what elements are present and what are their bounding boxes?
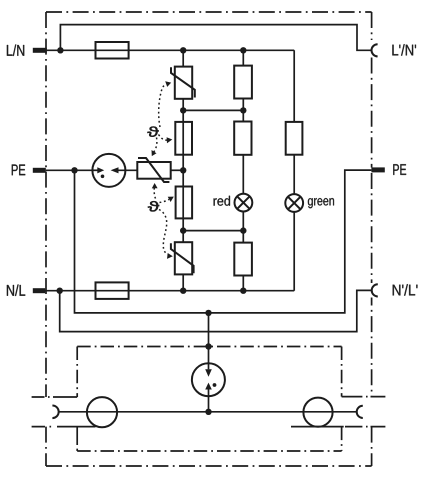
thermal disconnect theta 2 — [148, 201, 159, 211]
pass-through socket arc left — [52, 406, 58, 419]
label green — [308, 198, 334, 208]
label L/N — [7, 45, 24, 56]
dotted arrow theta1 to V1 — [159, 84, 166, 127]
junction spark gap column at section box — [205, 343, 211, 349]
resistor R3 body — [234, 66, 252, 99]
varistor V2 stroke — [171, 243, 194, 273]
junction N/L row at column 1 — [180, 288, 186, 294]
varistor VH body — [137, 162, 170, 179]
terminal N/L black bar — [33, 288, 45, 293]
dotted arrow theta2 to R2 — [160, 199, 170, 202]
junction N/L row at bypass — [57, 288, 63, 294]
wire PE net descent — [75, 170, 372, 313]
enclosure dash-dot border left — [45, 12, 47, 397]
dotted arrow theta1 to R1 — [159, 135, 169, 141]
pass-through channel dash-dot lines left — [32, 396, 78, 398]
wire column1 bottom — [182, 274, 184, 290]
wire PE row — [46, 169, 93, 171]
resistor R4 body — [234, 122, 251, 155]
wire N/L bypass to N'/L' — [60, 290, 372, 331]
label red — [214, 196, 231, 206]
pass-through socket arc right — [357, 406, 363, 418]
wire column3 segments — [293, 50, 295, 122]
label N'/L' — [393, 284, 418, 295]
enclosure dash-dot border bottom — [46, 465, 372, 467]
terminal PE left black bar — [33, 168, 46, 173]
disconnector R1 body — [175, 122, 192, 155]
dotted arrow theta1 to VH — [154, 138, 157, 153]
varistor V2 body — [175, 242, 192, 274]
junction N/L row at column 2 — [240, 288, 246, 294]
label L'/N' — [392, 44, 416, 55]
pass-through second conductor wire right — [291, 426, 344, 428]
wire bypass L/N to L'/N' — [60, 25, 371, 51]
junction link row C at column 1 — [180, 227, 186, 233]
label PE left — [12, 165, 25, 176]
enclosure dash-dot border left below channel — [45, 427, 47, 466]
wire N/L row — [45, 290, 294, 292]
pass-through channel dash-dot lines right — [342, 396, 386, 398]
label PE right — [393, 164, 406, 175]
inner section dash-dot box bottom — [77, 450, 341, 452]
junction spark gap column at pass-through conductor — [205, 409, 211, 415]
junction link row B at column 1 — [180, 107, 186, 113]
feed-through terminal circle left — [87, 397, 117, 427]
spark gap SG1 — [92, 154, 125, 187]
resistor R5 body — [234, 243, 252, 276]
varistor V1 stroke — [171, 67, 195, 97]
wire column2 segments — [242, 50, 244, 65]
wire column1 middle (through disconnectors) — [182, 99, 184, 242]
junction link row C at column 2 — [240, 227, 246, 233]
wire VH to column1 — [171, 169, 184, 171]
junction PE row at column 1 — [180, 167, 186, 173]
junction L/N row at column 1 — [180, 47, 186, 53]
terminal N'/L' socket arc — [372, 284, 378, 296]
junction L/N row at bypass — [57, 47, 63, 53]
terminal PE right black bar — [371, 167, 384, 172]
wire row C link — [183, 230, 243, 232]
thermal disconnect theta 1 — [147, 127, 158, 137]
wire spark gap column — [208, 313, 210, 369]
inner section dash-dot box left — [76, 347, 78, 398]
fuse F1 — [96, 42, 129, 59]
lamp green indicator — [285, 194, 303, 212]
resistor R6 body — [286, 122, 303, 155]
wire column1 top — [182, 50, 184, 66]
pass-through second conductor wire left — [57, 426, 96, 428]
varistor V1 body — [175, 67, 192, 99]
label N/L — [7, 285, 25, 296]
inner section dash-dot box top — [77, 346, 341, 348]
junction PE row at descent — [71, 167, 77, 173]
junction PE line at spark gap column — [205, 310, 211, 316]
feed-through terminal circle right — [303, 398, 332, 427]
dotted arrow theta2 to VH — [154, 187, 155, 199]
terminal L'/N' socket arc — [372, 44, 378, 56]
pass-through conductor wire — [59, 411, 357, 413]
enclosure dash-dot border top — [46, 11, 372, 13]
junction L/N row at column 2 — [240, 47, 246, 53]
isolating spark gap SG2 — [192, 363, 225, 396]
lamp red indicator — [235, 194, 253, 212]
wire row B link — [183, 109, 243, 111]
junction link row B at column 2 — [240, 107, 246, 113]
disconnector R2 body — [176, 187, 193, 219]
terminal L/N black bar — [33, 48, 47, 53]
fuse F2 — [96, 282, 129, 299]
varistor VH stroke — [138, 158, 169, 182]
enclosure dash-dot border right segments — [371, 12, 373, 40]
inner section dash-dot box right — [341, 347, 343, 397]
dotted arrow theta2 to V2 — [159, 210, 168, 255]
wire row L/N — [47, 49, 295, 51]
